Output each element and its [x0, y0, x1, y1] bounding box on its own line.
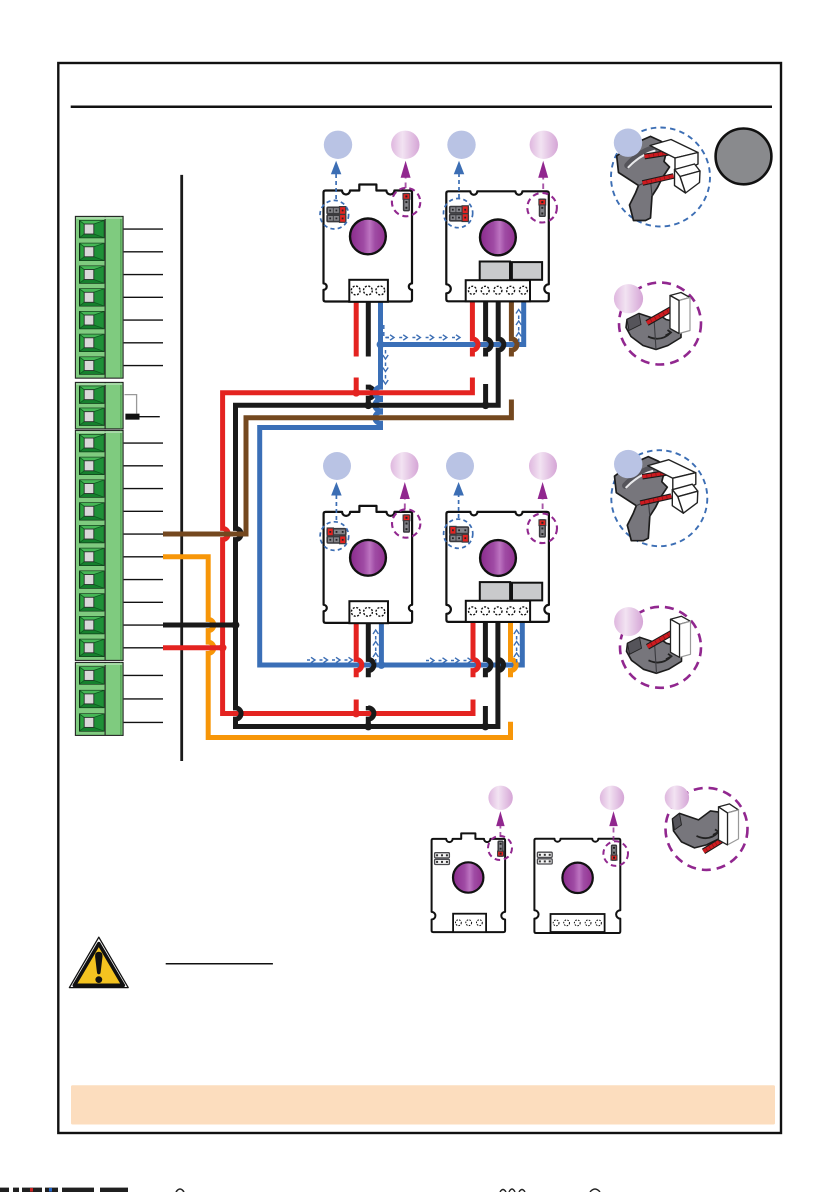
- flow arrows: bottom blue bus before module3: [307, 657, 353, 662]
- flow arrows: module4 blue upward: [514, 630, 519, 663]
- module M2: relay 1: [480, 262, 510, 281]
- module M2: address jumper: [539, 199, 546, 216]
- terminal block X4 (3-pole) body: [75, 662, 123, 735]
- terminal 2: [80, 691, 104, 708]
- page border frame: [58, 63, 781, 1133]
- wire: black terminal wire (X3-9): [163, 623, 236, 628]
- arrow module5 address jumper to C1: [499, 824, 501, 837]
- arrow module1 jumpers to A1: [335, 172, 337, 199]
- terminal 2: [80, 243, 104, 260]
- junction dot blue module3: [378, 661, 386, 669]
- terminal 4: [80, 503, 104, 520]
- junction dot black riser: [232, 621, 240, 629]
- module M4: PCB outline: [446, 512, 549, 622]
- module M4: jumper highlight circle (purple): [527, 514, 557, 544]
- terminal 8: [80, 594, 104, 611]
- terminal 1: [80, 435, 104, 452]
- terminal 1: [80, 386, 104, 403]
- wire: module4 red lead (upper): [473, 614, 479, 677]
- module M2: motor: [480, 220, 516, 256]
- junction dot red module3: [352, 710, 360, 718]
- arrow module4 address jumper to B4: [542, 497, 544, 509]
- wire: module4 orange lead (upper): [511, 614, 517, 677]
- jumper link symbol on X2: [125, 395, 140, 420]
- terminal 7: [80, 357, 104, 374]
- wire: blue main run module1 to bottom bus: [260, 294, 523, 666]
- wire: module4 black lead 1 (lower): [483, 706, 488, 727]
- detail circle D4 (purple dashed): address jumper fitted: [614, 607, 701, 688]
- junction dot red module1: [352, 389, 360, 397]
- terminal block X1 (7-pole) body: [75, 216, 123, 378]
- module M1: motor: [350, 219, 386, 255]
- module M3: PCB outline: [324, 506, 413, 623]
- indicator circle C1 (pink): [488, 786, 512, 810]
- wire: module3 black lead (upper): [368, 614, 374, 677]
- wire: module3 red lead (upper): [356, 614, 362, 677]
- flow arrows: module3 blue upward: [373, 630, 378, 663]
- wire: black bus run (module2 lead2 + top + riser + bottom + module4 lead2): [236, 294, 504, 727]
- terminal stub lines block X4: [124, 675, 163, 722]
- module M6: jumper highlight circle (purple): [603, 841, 628, 866]
- arrow module3 jumpers to B1: [335, 494, 337, 521]
- terminal 6: [80, 334, 104, 351]
- module M2: jumper highlight circle (blue): [444, 199, 473, 228]
- flow arrows: module1 blue downward: [383, 350, 388, 384]
- indicator circle A4 (pink): [530, 131, 558, 159]
- module M3: screw terminal block: [349, 601, 388, 623]
- module M5: PCB outline: [432, 833, 506, 932]
- module M3: address jumper: [403, 515, 410, 532]
- junction dot black module4: [482, 723, 490, 731]
- terminal 2: [80, 408, 104, 425]
- wire: module3 blue lead: [379, 614, 384, 665]
- terminal 3: [80, 266, 104, 283]
- terminal 5: [80, 526, 104, 543]
- wire: module4 black lead 1 (upper): [485, 614, 491, 677]
- module M2: screw terminal block: [466, 280, 530, 301]
- top horizontal rule: [71, 106, 772, 109]
- terminal block X3 (10-pole) body: [75, 430, 123, 660]
- terminal 7: [80, 571, 104, 588]
- indicator circle B1 (blue): [323, 452, 351, 480]
- indicator circle A1 (blue): [324, 131, 352, 159]
- wire: red terminal wire (X3-10): [163, 645, 223, 650]
- module M4: motor: [480, 540, 516, 576]
- wire: module3 red lead (lower): [354, 700, 359, 714]
- module M5: address jumper: [498, 841, 504, 856]
- wire: top blue bus to module2: [381, 294, 524, 345]
- module M5: jumper highlight circle (purple): [488, 836, 512, 860]
- detail circle D5 (purple dashed): address jumper low position: [665, 786, 748, 870]
- detail circle D2 (purple dashed): address jumper fitted: [614, 283, 701, 365]
- module M2: jumper highlight circle (purple): [527, 193, 557, 223]
- wire: module1 red lead (upper): [354, 294, 359, 357]
- detail circle D1 (blue dashed): jumpers fitted: [611, 128, 710, 227]
- note underline: [166, 963, 273, 965]
- module M4: address jumper: [539, 520, 546, 537]
- wire: module3 black lead (lower, loops over red): [368, 706, 374, 727]
- module M1: address jumper: [403, 194, 410, 211]
- module M3: jumper highlight circle (blue): [320, 522, 349, 551]
- terminal 4: [80, 289, 104, 306]
- module M6: configuration jumpers (open): [537, 852, 552, 857]
- flow arrows: top blue bus rightward: [384, 325, 460, 340]
- wire: module2 black lead 1 (upper): [486, 294, 492, 357]
- module M4: configuration jumpers: [450, 526, 469, 534]
- module M1: configuration jumpers: [327, 207, 346, 215]
- module M5: motor: [453, 862, 483, 892]
- junction dot black module1: [364, 401, 372, 409]
- wire: orange run terminal X3-6 to module4: [163, 557, 511, 738]
- terminal block X2 (2-pole) body: [75, 382, 123, 429]
- warning triangle: [69, 937, 128, 987]
- arrow module1 address jumper to A2: [405, 176, 407, 188]
- detail circle D3 (blue dashed): jumpers fitted variant: [611, 450, 707, 546]
- junction dot black module3: [364, 723, 372, 731]
- bottom info bar (peach): [71, 1085, 775, 1124]
- module M4: screw terminal block: [466, 601, 530, 622]
- terminal 9: [80, 617, 104, 634]
- terminal stub line X2-2: [140, 416, 160, 418]
- module M6: screw terminal block: [551, 914, 605, 932]
- indicator circle B3 (blue): [446, 452, 474, 480]
- terminal 10: [80, 639, 104, 656]
- terminal stub lines block X3: [124, 443, 163, 648]
- module M5: configuration jumpers (open): [435, 853, 450, 858]
- terminal 6: [80, 548, 104, 565]
- flow arrows: module2 blue upward: [516, 310, 521, 343]
- module M4: relay 2: [512, 583, 542, 601]
- arrow module2 address jumper to A4: [542, 176, 544, 189]
- module M3: motor: [350, 540, 386, 576]
- module M1: jumper highlight circle (blue): [320, 200, 349, 229]
- module M1: screw terminal block: [349, 280, 388, 302]
- junction dot red riser: [219, 644, 227, 652]
- module M1: jumper highlight circle (purple): [392, 188, 420, 216]
- wire: module2 black lead 1 (lower): [483, 384, 488, 405]
- module M1: PCB outline: [324, 185, 413, 302]
- module M2: configuration jumpers: [450, 206, 469, 214]
- arrow module6 address jumper to C2: [613, 824, 615, 841]
- terminal 5: [80, 312, 104, 329]
- wire: red bus run (top + riser + bottom): [223, 378, 473, 714]
- terminal 3: [80, 714, 104, 731]
- indicator circle A3 (blue): [447, 131, 475, 159]
- module M4: relay 1: [480, 582, 510, 601]
- next page sliver at bottom edge: [0, 1188, 600, 1192]
- vertical bus line: [180, 175, 183, 761]
- arrow module2 jumpers to A3: [458, 172, 460, 198]
- terminal 1: [80, 221, 104, 238]
- module M6: PCB outline: [534, 839, 620, 933]
- wire: module2 brown lead (upper): [511, 294, 517, 357]
- module M3: jumper highlight circle (purple): [392, 509, 420, 537]
- module M6: motor: [562, 863, 592, 893]
- module M4: jumper highlight circle (blue): [444, 519, 473, 548]
- wire: module1 black lead (lower, loops over red): [368, 385, 374, 406]
- wire: module2 red lead (upper): [472, 294, 478, 357]
- flow arrows: bottom blue bus before module4: [426, 658, 472, 663]
- terminal 3: [80, 480, 104, 497]
- module M6: address jumper: [611, 845, 617, 860]
- arrow module4 jumpers to B3: [458, 494, 460, 519]
- junction dot blue at module1: [377, 341, 385, 349]
- module M3: configuration jumpers: [327, 528, 346, 536]
- wire: module1 red lead (lower): [354, 378, 359, 393]
- wire: module1 black lead (upper): [366, 294, 371, 357]
- indicator circle B4 (pink): [529, 452, 557, 480]
- indicator circle A2 (pink): [391, 131, 419, 159]
- arrow module3 address jumper to B2: [404, 497, 406, 509]
- indicator circle C2 (pink): [600, 786, 624, 810]
- wire: brown bus run to terminal X3-5: [163, 400, 511, 535]
- module M2: PCB outline: [446, 191, 549, 301]
- junction dot black module2: [482, 401, 490, 409]
- terminal 1: [80, 667, 104, 684]
- gray indicator circle: [716, 129, 772, 185]
- terminal stub lines block X1: [124, 229, 163, 366]
- terminal 2: [80, 457, 104, 474]
- indicator circle B2 (pink): [391, 452, 419, 480]
- module M2: relay 2: [512, 262, 542, 280]
- module M5: screw terminal block: [453, 914, 486, 932]
